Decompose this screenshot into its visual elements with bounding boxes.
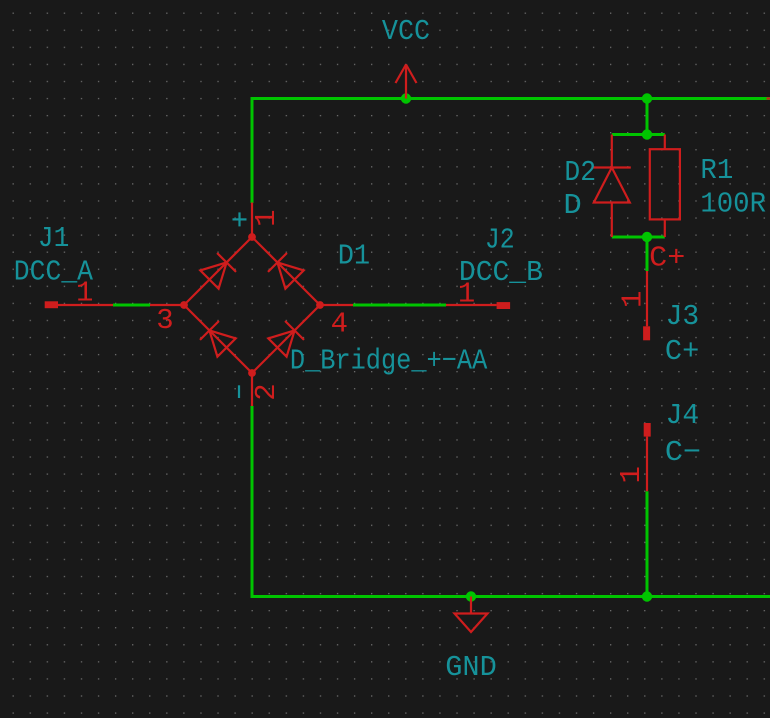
wire bridge to GND rail xyxy=(252,406,770,597)
svg-text:D: D xyxy=(563,189,581,222)
svg-text:1: 1 xyxy=(617,291,650,308)
J3 pin 1 xyxy=(617,271,650,326)
svg-text:D1: D1 xyxy=(338,239,370,272)
svg-text:2: 2 xyxy=(250,383,283,400)
D1 diode lower-right xyxy=(268,321,304,357)
junction xyxy=(642,129,652,139)
wire J1 to bridge xyxy=(113,304,150,307)
svg-text:100R: 100R xyxy=(700,188,766,221)
junction xyxy=(642,93,652,103)
svg-text:C+: C+ xyxy=(665,335,699,368)
ground GND xyxy=(445,597,497,684)
D1 pin 3 xyxy=(150,304,184,337)
wire VCC rail xyxy=(252,99,770,204)
junction xyxy=(642,591,652,601)
wire bridge to J2 xyxy=(353,304,446,307)
diode bridge D1 body xyxy=(180,233,324,377)
svg-text:J3: J3 xyxy=(666,300,700,333)
svg-text:J1: J1 xyxy=(38,222,69,255)
D1 pin 4 xyxy=(320,305,353,341)
J2 pin 1 xyxy=(446,278,497,311)
J1 pin 1 xyxy=(58,276,113,309)
svg-text:3: 3 xyxy=(156,304,173,337)
wire J4 to GND rail xyxy=(646,491,649,596)
J4 pin 1 xyxy=(615,437,648,492)
power VCC xyxy=(382,15,430,99)
resistor R1 xyxy=(650,135,680,238)
wire VCC rail to D2/R1 xyxy=(646,99,649,135)
svg-text:4: 4 xyxy=(331,308,348,341)
junction xyxy=(466,591,476,601)
diode D2 xyxy=(593,135,631,238)
svg-text:D2: D2 xyxy=(564,156,596,189)
wire D2/R1 top xyxy=(612,133,665,136)
connector J4 body xyxy=(644,423,651,437)
connector J2 body xyxy=(497,302,511,309)
D1 minus mark xyxy=(238,385,240,398)
junction xyxy=(401,93,411,103)
svg-text:DCC_B: DCC_B xyxy=(459,256,543,289)
D1 diode upper-right xyxy=(268,253,304,289)
D1 diode lower-left xyxy=(200,321,236,357)
D1 diode upper-left xyxy=(200,253,236,289)
D1 pin 1 xyxy=(250,203,283,238)
svg-text:GND: GND xyxy=(445,651,497,684)
wire D2/R1 bottom xyxy=(612,236,665,239)
svg-text:1: 1 xyxy=(615,466,648,483)
svg-text:R1: R1 xyxy=(700,154,733,187)
connector J3 body xyxy=(643,326,650,340)
svg-text:DCC_A: DCC_A xyxy=(14,255,94,288)
svg-text:J4: J4 xyxy=(666,399,700,432)
junction xyxy=(642,232,652,242)
svg-text:1: 1 xyxy=(250,209,283,226)
svg-text:C−: C− xyxy=(665,436,701,469)
svg-text:VCC: VCC xyxy=(382,15,430,48)
D1 pin 2 xyxy=(250,373,283,406)
D1 plus mark xyxy=(233,212,247,226)
svg-text:J2: J2 xyxy=(485,224,515,257)
svg-text:C+: C+ xyxy=(649,241,685,274)
connector J1 body xyxy=(45,301,58,308)
svg-text:D_Bridge_+−AA: D_Bridge_+−AA xyxy=(290,344,488,377)
off-sheet stub top right xyxy=(767,97,770,99)
wire node C+ to J3 xyxy=(646,237,649,271)
